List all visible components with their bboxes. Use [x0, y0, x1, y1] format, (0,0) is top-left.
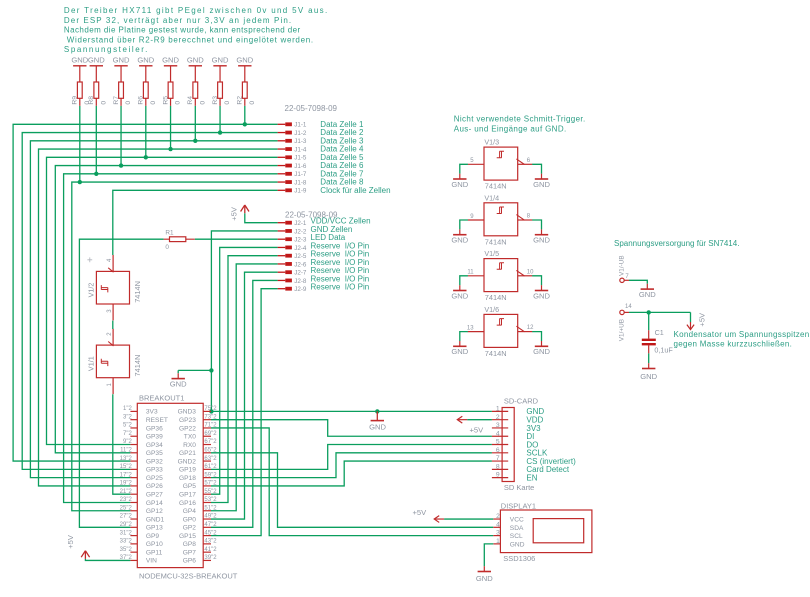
svg-text:7414N: 7414N: [133, 355, 142, 377]
junction R4 junction: [193, 139, 197, 143]
origin cross V1/2: [87, 257, 92, 262]
svg-text:6: 6: [496, 447, 500, 454]
op-amp schmitt-trigger V1/4 7414N: [468, 193, 533, 246]
junction GND net at GND3: [209, 409, 213, 413]
svg-text:35"2: 35"2: [120, 547, 133, 553]
ground GND left of V1/6: [451, 341, 468, 356]
svg-text:R5: R5: [162, 96, 169, 105]
svg-text:VIN: VIN: [146, 558, 157, 565]
svg-text:GND: GND: [236, 56, 253, 65]
svg-text:GP18: GP18: [179, 475, 196, 482]
wire net +5V to SD VDD: [467, 419, 492, 421]
ground GND right of V1/4: [533, 229, 550, 244]
svg-text:69"2: 69"2: [204, 431, 217, 437]
svg-text:GND: GND: [162, 56, 179, 65]
svg-text:V1/6: V1/6: [484, 305, 499, 314]
svg-text:0: 0: [199, 101, 206, 105]
junction R8 junction: [94, 172, 98, 176]
svg-text:C1: C1: [655, 328, 664, 337]
resistor R4 value 0: [187, 66, 206, 106]
svg-text:GP4: GP4: [183, 508, 197, 515]
svg-text:GND2: GND2: [178, 458, 197, 465]
svg-text:3: 3: [496, 422, 500, 429]
wire net Reserve J2-9 to breakout: [211, 289, 278, 536]
wire net pin14 +5V: [629, 312, 691, 330]
op-amp schmitt-trigger V1/6 7414N: [467, 305, 534, 358]
svg-text:+5V: +5V: [230, 206, 239, 221]
svg-text:GP35: GP35: [146, 450, 163, 457]
svg-text:J2-9: J2-9: [294, 286, 307, 293]
svg-text:2: 2: [496, 513, 500, 520]
wire net pin7 to GND: [629, 280, 647, 284]
svg-text:GP33: GP33: [146, 467, 163, 474]
ground GND near SD-CARD: [369, 411, 386, 431]
svg-text:0: 0: [150, 101, 157, 105]
svg-text:Reserve I/O Pin: Reserve I/O Pin: [311, 283, 370, 292]
svg-text:4: 4: [496, 521, 500, 528]
svg-text:14: 14: [625, 304, 632, 310]
wire net display GND: [484, 544, 493, 566]
svg-text:49"2: 49"2: [204, 514, 217, 520]
svg-text:GP27: GP27: [146, 492, 163, 499]
svg-text:Clock für alle Zellen: Clock für alle Zellen: [320, 186, 390, 195]
wire V1/4 output to GND: [532, 220, 541, 229]
capacitor C1 value 0,1uF: [642, 328, 674, 354]
svg-text:GP13: GP13: [146, 525, 163, 532]
svg-text:45"2: 45"2: [204, 530, 217, 536]
svg-text:0: 0: [100, 101, 107, 105]
display DISPLAY1 SSD1306: [493, 502, 592, 563]
svg-text:GND3: GND3: [178, 409, 197, 416]
wire net GP23 to SD DI: [211, 420, 492, 437]
connector SD-CARD: [492, 397, 576, 492]
svg-text:GND: GND: [639, 290, 656, 299]
ground GND above R4: [187, 56, 204, 66]
op-amp schmitt-trigger V1/2 7414N: [86, 255, 141, 320]
svg-text:39"2: 39"2: [204, 555, 217, 561]
svg-text:GND: GND: [533, 180, 550, 189]
svg-text:J2-5: J2-5: [294, 253, 307, 260]
connector pin J2-1: [278, 217, 371, 228]
svg-text:GP36: GP36: [146, 425, 163, 432]
svg-text:Nicht verwendete Schmitt-Trigg: Nicht verwendete Schmitt-Trigger.: [454, 115, 586, 124]
ground GND above R3: [212, 56, 229, 66]
svg-text:2: 2: [496, 414, 500, 421]
svg-text:DISPLAY1: DISPLAY1: [501, 502, 536, 511]
svg-text:TX0: TX0: [184, 434, 196, 441]
svg-text:1: 1: [496, 538, 500, 545]
note text unused schmitt triggers: [454, 115, 586, 134]
svg-text:J1-8: J1-8: [294, 179, 307, 186]
svg-text:GND: GND: [137, 56, 154, 65]
svg-text:SD-CARD: SD-CARD: [504, 397, 539, 406]
svg-text:GP0: GP0: [183, 516, 197, 523]
svg-text:1: 1: [496, 406, 500, 413]
svg-text:J2-4: J2-4: [294, 245, 307, 252]
resistor R9 value 0: [72, 66, 91, 106]
svg-text:63"2: 63"2: [204, 456, 217, 462]
junction R7 junction: [119, 163, 123, 167]
ground GND left of V1/3: [451, 174, 468, 189]
svg-text:V1/3: V1/3: [484, 138, 499, 147]
wire V1/4 input to GND: [460, 220, 468, 229]
svg-text:0: 0: [175, 101, 182, 105]
svg-text:SDA: SDA: [510, 525, 524, 532]
svg-text:Der ESP 32, verträgt aber nur: Der ESP 32, verträgt aber nur 3,3V an je…: [64, 16, 292, 25]
junction R9 junction: [78, 180, 82, 184]
svg-text:GP6: GP6: [183, 558, 197, 565]
connector pin J1-6: [278, 161, 364, 170]
wire net +5V to J2-1: [245, 213, 278, 223]
svg-text:GP17: GP17: [179, 492, 196, 499]
wire V1/5 input to GND: [460, 276, 468, 285]
svg-text:GND: GND: [510, 541, 525, 548]
wire net GP18 to SD SCLK: [211, 453, 492, 478]
svg-text:67"2: 67"2: [204, 439, 217, 445]
connector pin J2-7: [278, 266, 370, 277]
supply +5V at display VCC: [413, 508, 445, 522]
wire net LED Data left of R1: [79, 239, 163, 527]
svg-text:GP8: GP8: [183, 541, 197, 548]
svg-text:EN: EN: [526, 473, 537, 482]
svg-text:V1/1: V1/1: [86, 356, 95, 371]
wire net V1/1 pin1 to GP27: [113, 394, 131, 494]
svg-text:13: 13: [467, 325, 474, 331]
svg-text:GND: GND: [369, 423, 386, 432]
svg-text:V1/-UB: V1/-UB: [618, 255, 625, 276]
connector pin J1-9: [278, 186, 391, 195]
ground GND above R8: [88, 56, 105, 66]
svg-text:Der Treiber HX711 gibt PEgel z: Der Treiber HX711 gibt PEgel zwischen 0v…: [64, 6, 329, 15]
svg-text:9"2: 9"2: [123, 439, 132, 445]
connector pin J1-3: [278, 136, 364, 145]
ground GND right of V1/3: [533, 174, 550, 189]
svg-text:SSD1306: SSD1306: [503, 554, 535, 563]
connector pin J1-2: [278, 128, 364, 137]
svg-text:R1: R1: [165, 229, 174, 236]
svg-text:GP25: GP25: [146, 475, 163, 482]
junction junction pin14 net: [647, 310, 651, 314]
wire V1/3 input to GND: [460, 164, 468, 173]
wire net Data Zelle 1: [13, 124, 278, 461]
svg-text:GP16: GP16: [179, 500, 196, 507]
svg-text:7414N: 7414N: [485, 293, 507, 302]
wire net LED Data right of R1: [195, 238, 278, 240]
svg-text:J1-6: J1-6: [294, 163, 307, 170]
junction R2 junction: [243, 122, 247, 126]
wire net Clock to V1/2 pin 4: [113, 190, 278, 255]
svg-text:NODEMCU-32S-BREAKOUT: NODEMCU-32S-BREAKOUT: [139, 571, 238, 580]
svg-text:GP5: GP5: [183, 483, 197, 490]
wire net Reserve J2-5 to breakout: [211, 256, 278, 503]
wire net +5V to VIN: [85, 559, 130, 561]
svg-text:R2: R2: [237, 96, 244, 105]
svg-text:7"2: 7"2: [123, 431, 132, 437]
svg-text:J2-2: J2-2: [294, 228, 307, 235]
ground GND above R9: [71, 56, 88, 66]
svg-text:Spannungsteiler.: Spannungsteiler.: [64, 45, 149, 54]
resistor R3 value 0: [212, 66, 231, 106]
svg-text:+5V: +5V: [470, 426, 485, 435]
wire R3 to Data Zelle 2: [219, 106, 221, 133]
wire net Reserve J2-6 to breakout: [211, 264, 278, 511]
svg-text:GND: GND: [113, 56, 130, 65]
svg-text:0: 0: [165, 244, 169, 251]
svg-text:0,1uF: 0,1uF: [654, 345, 673, 354]
svg-text:GP39: GP39: [146, 434, 163, 441]
connector pin J2-5: [278, 250, 370, 261]
supply +5V above J2-1: [230, 205, 249, 221]
ground GND below display: [476, 566, 493, 583]
svg-text:V1/5: V1/5: [484, 249, 499, 258]
svg-text:7414N: 7414N: [485, 182, 507, 191]
svg-text:J1-5: J1-5: [294, 155, 307, 162]
op-amp schmitt-trigger V1/1 7414N: [86, 329, 141, 394]
ground GND left of V1/4: [451, 229, 468, 244]
junction R6 junction: [144, 155, 148, 159]
ground GND below C1: [640, 363, 657, 381]
svg-text:15"2: 15"2: [120, 464, 133, 470]
connector pin J2-2: [278, 225, 353, 236]
wire R6 to Data Zelle 5: [145, 106, 147, 157]
svg-text:GND: GND: [533, 291, 550, 300]
svg-text:5: 5: [496, 439, 500, 446]
supply +5V near VIN: [66, 534, 90, 559]
wire R8 to Data Zelle 7: [95, 106, 97, 174]
svg-text:J1-7: J1-7: [294, 171, 307, 178]
svg-text:31"2: 31"2: [120, 530, 133, 536]
junction R3 junction: [218, 130, 222, 134]
svg-text:R9: R9: [72, 96, 79, 105]
wire net GP5 to SD CS: [211, 461, 492, 486]
supply +5V at SD VDD: [457, 416, 484, 434]
svg-text:V1/+UB: V1/+UB: [618, 319, 625, 341]
svg-text:7: 7: [496, 455, 500, 462]
wire R4 to Data Zelle 3: [194, 106, 196, 141]
svg-text:J2-7: J2-7: [294, 270, 307, 277]
wire V1/3 output to GND: [532, 164, 541, 173]
svg-text:11"2: 11"2: [120, 448, 132, 454]
svg-text:Spannungsversorgung für SN7414: Spannungsversorgung für SN7414.: [614, 239, 739, 248]
wire V1/6 output to GND: [532, 332, 541, 341]
wire net +5V to display VCC: [444, 518, 493, 520]
svg-text:R4: R4: [187, 96, 194, 105]
svg-text:Aus- und Eingänge auf GND.: Aus- und Eingänge auf GND.: [454, 124, 567, 133]
svg-text:GND: GND: [640, 372, 657, 381]
svg-text:V1/2: V1/2: [86, 283, 95, 298]
wire net Data Zelle 5: [47, 157, 278, 444]
svg-text:GP11: GP11: [146, 549, 163, 556]
junction R5 junction: [168, 147, 172, 151]
svg-text:GND: GND: [451, 347, 468, 356]
wire net Reserve J2-4 to breakout: [211, 247, 278, 494]
connector pin J2-4: [278, 241, 370, 252]
wire V1/6 input to GND: [460, 332, 468, 341]
svg-text:5"2: 5"2: [123, 423, 132, 429]
svg-text:R6: R6: [138, 96, 145, 105]
connector pin J1-5: [278, 153, 364, 162]
svg-text:GP14: GP14: [146, 500, 163, 507]
svg-text:J2-3: J2-3: [294, 237, 307, 244]
svg-text:8: 8: [496, 463, 500, 470]
wire net Data Zelle 6: [55, 166, 277, 453]
wire net between V1/2 pin3 and V1/1 pin2: [112, 321, 114, 329]
ground GND near breakout: [170, 373, 187, 388]
svg-text:J1-1: J1-1: [294, 122, 307, 129]
svg-text:0: 0: [125, 101, 132, 105]
svg-text:7414N: 7414N: [485, 237, 507, 246]
svg-text:7414N: 7414N: [485, 349, 507, 358]
svg-text:51"2: 51"2: [204, 505, 217, 511]
ground GND right of V1/5: [533, 285, 550, 300]
note text kondensator: [674, 330, 810, 349]
connector pin J2-8: [278, 274, 370, 285]
svg-text:47"2: 47"2: [204, 522, 217, 528]
svg-text:R3: R3: [212, 96, 219, 105]
svg-text:29"2: 29"2: [120, 522, 133, 528]
wire R9 to Data Zelle 8: [79, 106, 81, 182]
ground GND at pin 7: [639, 284, 656, 299]
svg-text:GND: GND: [451, 291, 468, 300]
wire net Data Zelle 2: [22, 133, 277, 470]
ground GND above R6: [137, 56, 154, 66]
supply +5V right of C1: [687, 312, 707, 330]
svg-text:GP9: GP9: [146, 533, 160, 540]
ground GND above R7: [113, 56, 130, 66]
connector pin J1-7: [278, 169, 364, 178]
svg-text:53"2: 53"2: [204, 497, 217, 503]
svg-text:GP2: GP2: [183, 525, 197, 532]
wire net GP21 to display SDA: [211, 453, 493, 528]
wire net Data Zelle 8: [72, 182, 278, 511]
svg-text:0: 0: [224, 101, 231, 105]
svg-text:GND: GND: [476, 574, 493, 583]
resistor R5 value 0: [162, 66, 181, 106]
wire R2 to Data Zelle 1: [244, 106, 246, 124]
svg-text:V1/4: V1/4: [484, 193, 499, 202]
wire net Data Zelle 4: [39, 149, 278, 486]
svg-text:Nachdem die Platine gestest wu: Nachdem die Platine gestest wurde, kann …: [64, 26, 301, 35]
svg-text:R8: R8: [88, 96, 95, 105]
svg-text:J1-4: J1-4: [294, 146, 307, 153]
connector pin J1-1: [278, 120, 364, 129]
svg-text:+5V: +5V: [66, 534, 75, 549]
connector pin J2-9: [278, 283, 370, 294]
svg-text:12: 12: [527, 325, 534, 331]
svg-text:21"2: 21"2: [120, 489, 133, 495]
ground GND above R2: [236, 56, 253, 66]
wire net Reserve J2-8 to breakout: [211, 280, 278, 527]
junction GND net at SD gnd symbol: [375, 409, 379, 413]
connector pin J2-6: [278, 258, 370, 269]
svg-text:GND: GND: [88, 56, 105, 65]
svg-text:GND: GND: [451, 180, 468, 189]
svg-text:27"2: 27"2: [120, 514, 133, 520]
svg-text:GP26: GP26: [146, 483, 163, 490]
svg-text:GND: GND: [71, 56, 88, 65]
svg-text:3"2: 3"2: [123, 414, 132, 420]
svg-text:GND: GND: [212, 56, 229, 65]
svg-text:0: 0: [249, 101, 256, 105]
svg-text:23"2: 23"2: [120, 497, 133, 503]
svg-text:RESET: RESET: [146, 417, 168, 424]
svg-text:Widerstand über R2-R9 berecchn: Widerstand über R2-R9 berecchnet und ein…: [64, 35, 314, 44]
svg-text:GND: GND: [170, 380, 187, 389]
svg-text:3: 3: [496, 530, 500, 537]
svg-text:GP34: GP34: [146, 442, 163, 449]
wire net GP22 to display SCL: [211, 428, 493, 536]
svg-text:GP23: GP23: [179, 417, 196, 424]
svg-text:+5V: +5V: [698, 312, 707, 327]
wire net GP19 to SD DO: [211, 445, 492, 470]
connector pin J1-8: [278, 178, 364, 187]
svg-text:7414N: 7414N: [133, 281, 142, 303]
svg-text:J1-3: J1-3: [294, 138, 307, 145]
resistor R8 value 0: [88, 66, 107, 106]
svg-text:J2-1: J2-1: [294, 220, 307, 227]
svg-text:BREAKOUT1: BREAKOUT1: [139, 394, 184, 403]
svg-text:11: 11: [467, 270, 474, 276]
svg-text:9: 9: [496, 472, 500, 479]
svg-text:VCC: VCC: [510, 517, 524, 524]
svg-text:J2-6: J2-6: [294, 261, 307, 268]
svg-text:SD Karte: SD Karte: [504, 483, 534, 492]
ground GND left of V1/5: [451, 285, 468, 300]
svg-text:22-05-7098-09: 22-05-7098-09: [285, 104, 338, 113]
svg-text:GND1: GND1: [146, 516, 165, 523]
connector pin J2-3: [278, 233, 346, 244]
connector pin J1-4: [278, 145, 364, 154]
svg-text:GP7: GP7: [183, 549, 197, 556]
svg-text:+5V: +5V: [413, 508, 428, 517]
svg-text:gegen Masse kurzzuschließen.: gegen Masse kurzzuschließen.: [674, 340, 793, 349]
ground GND right of V1/6: [533, 341, 550, 356]
resistor R1 value 0: [164, 229, 195, 251]
svg-text:R7: R7: [113, 96, 120, 105]
wire net GND Zellen: [178, 231, 492, 411]
svg-text:13"2: 13"2: [120, 456, 133, 462]
svg-text:GP15: GP15: [179, 533, 196, 540]
svg-text:1"2: 1"2: [123, 406, 132, 412]
svg-text:55"2: 55"2: [204, 489, 217, 495]
svg-text:GP12: GP12: [146, 508, 163, 515]
svg-text:GND: GND: [451, 236, 468, 245]
wire net Data Zelle 3: [30, 141, 277, 478]
op-amp schmitt-trigger V1/3 7414N: [468, 138, 533, 191]
svg-text:GP19: GP19: [179, 467, 196, 474]
op-amp schmitt-trigger V1/5 7414N: [467, 249, 534, 302]
svg-text:3V3: 3V3: [146, 409, 158, 416]
svg-text:GND: GND: [187, 56, 204, 65]
svg-text:J1-2: J1-2: [294, 130, 307, 137]
svg-text:25"2: 25"2: [120, 505, 133, 511]
svg-text:75"2: 75"2: [204, 406, 217, 412]
svg-text:J2-8: J2-8: [294, 278, 307, 285]
svg-text:33"2: 33"2: [120, 539, 133, 545]
wire R7 to Data Zelle 6: [120, 106, 122, 166]
svg-text:RX0: RX0: [183, 442, 196, 449]
power pin V1 pin 14 (V1/+UB): [618, 304, 632, 341]
resistor R6 value 0: [138, 66, 157, 106]
svg-text:J1-9: J1-9: [294, 188, 307, 195]
svg-text:41"2: 41"2: [204, 547, 217, 553]
svg-text:GND: GND: [533, 236, 550, 245]
svg-text:4: 4: [496, 430, 500, 437]
IC BREAKOUT1 NODEMCU-32S-BREAKOUT: [120, 394, 238, 581]
svg-text:GP21: GP21: [179, 450, 196, 457]
wire net Data Zelle 7: [64, 174, 278, 503]
junction GND net tap: [209, 368, 213, 372]
